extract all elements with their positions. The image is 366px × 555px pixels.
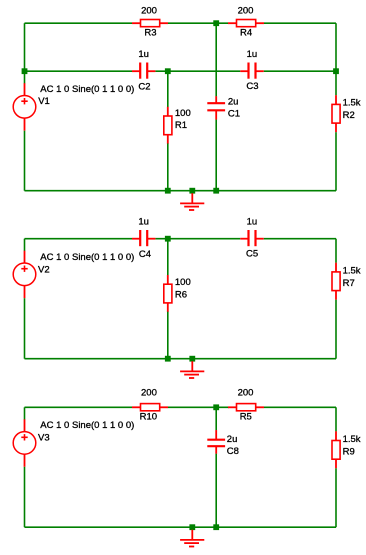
svg-text:R10: R10 [140, 411, 157, 422]
svg-text:V3: V3 [38, 433, 50, 444]
svg-text:R6: R6 [175, 290, 187, 301]
svg-text:C5: C5 [246, 248, 258, 259]
svg-text:2u: 2u [227, 434, 238, 445]
svg-text:V2: V2 [38, 265, 50, 276]
svg-text:R5: R5 [240, 412, 252, 423]
svg-text:200: 200 [238, 387, 254, 398]
svg-text:R2: R2 [343, 110, 355, 121]
svg-text:C4: C4 [139, 249, 151, 260]
svg-text:1u: 1u [138, 49, 149, 60]
svg-text:100: 100 [175, 277, 191, 288]
svg-text:1u: 1u [138, 217, 149, 228]
svg-text:V1: V1 [38, 96, 50, 107]
svg-text:C1: C1 [228, 108, 240, 119]
svg-text:R3: R3 [144, 28, 156, 39]
svg-text:100: 100 [175, 108, 191, 119]
svg-text:R1: R1 [175, 120, 187, 131]
svg-text:C2: C2 [138, 82, 150, 93]
svg-text:C3: C3 [246, 81, 258, 92]
svg-text:1.5k: 1.5k [343, 266, 361, 277]
svg-text:1.5k: 1.5k [343, 97, 361, 108]
svg-text:C8: C8 [227, 446, 239, 457]
svg-text:AC 1 0 Sine(0 1 1 0 0): AC 1 0 Sine(0 1 1 0 0) [40, 252, 134, 263]
svg-text:2u: 2u [228, 96, 239, 107]
svg-text:200: 200 [141, 387, 157, 398]
svg-text:200: 200 [238, 6, 254, 17]
svg-text:200: 200 [141, 6, 157, 17]
svg-text:AC 1 0 Sine(0 1 1 0 0): AC 1 0 Sine(0 1 1 0 0) [40, 84, 134, 95]
svg-text:R7: R7 [343, 278, 355, 289]
svg-text:AC 1 0 Sine(0 1 1 0 0): AC 1 0 Sine(0 1 1 0 0) [40, 420, 134, 431]
svg-text:1.5k: 1.5k [343, 434, 361, 445]
svg-text:1u: 1u [247, 217, 258, 228]
svg-text:1u: 1u [247, 49, 258, 60]
svg-text:R4: R4 [240, 28, 252, 39]
svg-text:R9: R9 [343, 447, 355, 458]
